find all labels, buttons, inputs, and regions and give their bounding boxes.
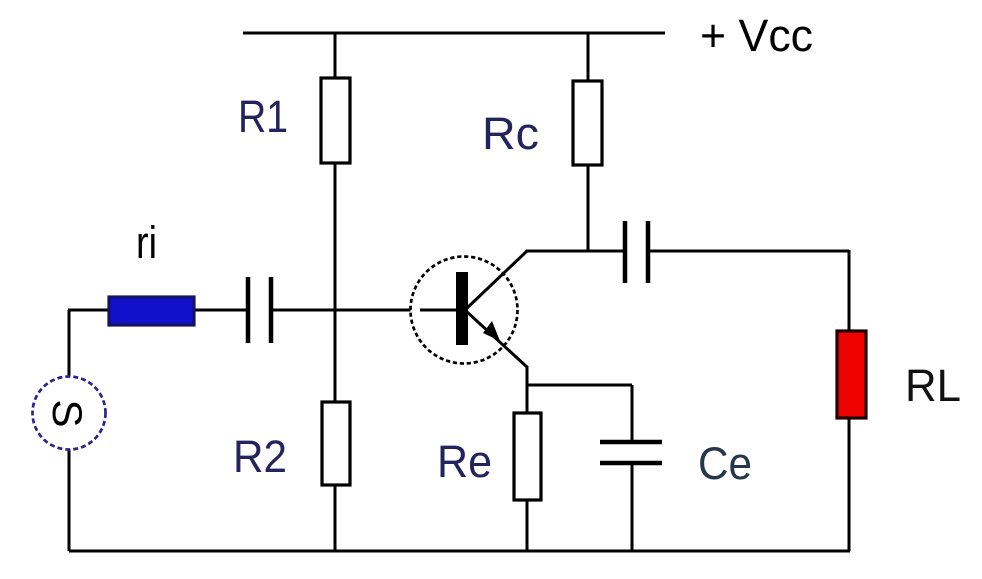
wire: emitter vertical through Re (526, 366, 529, 551)
wire: Rc vertical branch (587, 33, 590, 251)
svg-text:S: S (44, 400, 91, 428)
svg-text:Re: Re (437, 436, 492, 487)
wire: Ce top lead (631, 385, 634, 441)
wire: source to input node (68, 310, 71, 551)
resistor ri (109, 297, 194, 325)
wire: collector to output cap (526, 250, 623, 253)
svg-text:R2: R2 (233, 431, 287, 482)
capacitor C2 (output coupling) (625, 221, 648, 283)
svg-text:ri: ri (136, 217, 157, 268)
wire: +Vcc top rail (243, 32, 665, 35)
wire: emitter node to Ce (527, 384, 632, 387)
svg-text:Ce: Ce (698, 438, 752, 489)
resistor Re (514, 413, 541, 500)
svg-text:Rc: Rc (482, 108, 539, 159)
capacitor Ce (emitter bypass) (600, 442, 662, 463)
resistor Rc (573, 81, 602, 165)
transistor Q1 (411, 251, 528, 367)
source S (33, 377, 106, 450)
resistor R2 (322, 402, 350, 485)
wire: output cap to RL corner (650, 250, 849, 253)
wire: bottom rail (69, 550, 850, 553)
resistor RL (837, 331, 866, 418)
wire: input line left of C1 (68, 309, 246, 312)
svg-text:RL: RL (905, 360, 961, 411)
svg-text:+ Vcc: + Vcc (700, 10, 813, 61)
wire: Ce bottom lead (631, 463, 634, 551)
resistor R1 (321, 78, 350, 163)
wire: R1/R2 vertical branch (334, 33, 337, 551)
wire: input line C1 to base (273, 309, 457, 312)
svg-text:R1: R1 (238, 91, 288, 142)
wire: RL vertical branch (848, 250, 851, 551)
capacitor C1 (input coupling) (248, 277, 271, 343)
